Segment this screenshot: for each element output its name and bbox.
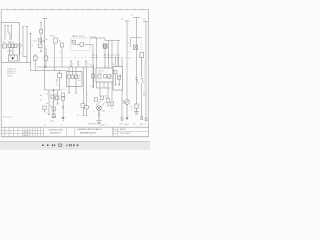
motor device xyxy=(135,104,138,112)
wire riser with device xyxy=(59,43,64,67)
chassis arrow terminator xyxy=(62,117,65,120)
svg-text:F21 04: F21 04 xyxy=(90,36,97,38)
bus N2 xyxy=(31,70,67,72)
border frame top with zone ticks xyxy=(1,10,148,138)
horizontal tie wire xyxy=(45,56,63,90)
K1 coil terminal circle xyxy=(18,44,21,47)
svg-text:8: 8 xyxy=(89,107,90,109)
wire stub pins right of J1 xyxy=(19,26,30,62)
svg-text:B14: B14 xyxy=(51,121,54,123)
fuse F2 xyxy=(44,48,48,67)
junction xyxy=(44,66,45,67)
svg-text:B 04 C 2: B 04 C 2 xyxy=(23,135,30,137)
switch pair cluster xyxy=(51,95,59,103)
svg-text:B21 04: B21 04 xyxy=(55,79,57,86)
control box internals xyxy=(98,75,111,79)
J1 pins xyxy=(4,26,13,29)
connector labels xyxy=(120,123,146,126)
svg-text:21: 21 xyxy=(128,51,130,53)
svg-text:B4: B4 xyxy=(59,41,61,43)
svg-text:B 21 04 12: B 21 04 12 xyxy=(3,117,12,119)
lamp E2 xyxy=(123,100,130,118)
svg-text:d: d xyxy=(113,134,114,136)
svg-text:B12: B12 xyxy=(140,124,143,126)
svg-text:2: 2 xyxy=(6,132,7,134)
svg-text:B12: B12 xyxy=(104,95,106,98)
switch S1 cluster xyxy=(38,39,45,52)
left small text xyxy=(3,117,12,119)
title block xyxy=(1,127,148,137)
svg-text:21-04-12B 4: 21-04-12B 4 xyxy=(120,133,130,135)
svg-text:12: 12 xyxy=(90,64,92,66)
relay box K2 xyxy=(67,72,83,87)
svg-text:LIGHTING CIRCUIT DIAG 21: LIGHTING CIRCUIT DIAG 21 xyxy=(77,128,102,131)
battery feed tap B+ xyxy=(42,18,47,56)
svg-text:B A 4 2: B A 4 2 xyxy=(8,41,15,44)
power tap right 3 xyxy=(143,22,148,119)
box internals xyxy=(114,70,121,86)
enclosure label xyxy=(72,35,86,38)
svg-text:A2: A2 xyxy=(40,94,42,97)
svg-text:E04: E04 xyxy=(125,124,128,126)
lamp symbol in unit xyxy=(134,45,138,50)
dashed link xyxy=(144,62,146,92)
svg-text:4: 4 xyxy=(108,112,109,114)
lamp E1 xyxy=(97,106,102,121)
svg-text:58: 58 xyxy=(143,19,145,21)
long tie wire right xyxy=(93,67,95,88)
svg-text:4: 4 xyxy=(10,132,11,134)
inline fuse dark xyxy=(103,44,107,48)
contact row xyxy=(92,55,120,58)
sensor pair xyxy=(62,93,65,117)
svg-text:E2: E2 xyxy=(127,43,129,45)
arrow terminator xyxy=(126,118,129,120)
svg-text:X2: X2 xyxy=(133,123,135,125)
svg-text:30: 30 xyxy=(121,19,123,21)
switch S2 xyxy=(72,41,93,47)
power tap right 2 xyxy=(133,18,140,105)
svg-text:B4: B4 xyxy=(78,80,80,82)
right distribution box xyxy=(113,67,123,91)
svg-text:12: 12 xyxy=(87,94,89,96)
svg-text:B4: B4 xyxy=(46,103,48,105)
mechanical linkage dashed line xyxy=(38,56,147,58)
ground xyxy=(134,112,139,115)
fuse block right xyxy=(140,53,144,78)
svg-text:E4: E4 xyxy=(50,105,52,107)
svg-text:4: 4 xyxy=(131,109,132,111)
bus N1 xyxy=(37,66,94,68)
aux device cluster xyxy=(81,67,88,115)
svg-text:B4: B4 xyxy=(143,95,145,97)
svg-text:B04 2: B04 2 xyxy=(101,124,107,126)
fuse F1 xyxy=(33,54,37,71)
interior lamp unit open box xyxy=(131,38,142,48)
selector box xyxy=(54,38,58,71)
feeder device on riser xyxy=(91,74,94,78)
svg-text:MACHINE 17: MACHINE 17 xyxy=(50,131,61,134)
switch bank risers xyxy=(93,38,118,88)
labels above title block xyxy=(44,115,107,127)
subtitle text xyxy=(77,128,102,134)
inline device xyxy=(43,106,46,112)
relay element chain xyxy=(52,90,56,118)
svg-text:12: 12 xyxy=(77,115,79,117)
riser tick xyxy=(104,66,106,69)
svg-text:4: 4 xyxy=(129,58,130,60)
svg-text:LIGHTING ZONE: LIGHTING ZONE xyxy=(48,129,63,131)
svg-text:MACHINE 4/04 B1: MACHINE 4/04 B1 xyxy=(80,132,96,135)
relay K1 cluster xyxy=(3,44,17,55)
K1 labels xyxy=(3,41,15,53)
bus taps xyxy=(71,65,94,67)
relay contact marks xyxy=(135,77,143,104)
wire from pin to relay cluster xyxy=(5,29,12,41)
svg-text:4 5: 4 5 xyxy=(90,86,93,88)
contactor chain xyxy=(58,71,62,91)
wire riser xyxy=(30,33,32,70)
stub wire group with labels xyxy=(70,61,87,67)
branch wires below tie xyxy=(48,90,59,115)
svg-text:B2: B2 xyxy=(56,94,58,96)
svg-text:21: 21 xyxy=(93,111,95,113)
svg-text:4: 4 xyxy=(46,113,47,115)
ground xyxy=(96,121,101,124)
revision cells text xyxy=(6,131,31,137)
box ref label xyxy=(112,64,114,66)
svg-text:21: 21 xyxy=(40,99,42,101)
svg-text:GROUND 21: GROUND 21 xyxy=(88,124,101,126)
dashed enclosure xyxy=(71,38,91,51)
svg-text:21: 21 xyxy=(44,125,46,127)
svg-text:12: 12 xyxy=(46,93,48,95)
svg-text:b: b xyxy=(113,130,114,132)
power tap right 1 xyxy=(124,21,129,100)
viewer status bar xyxy=(0,142,150,150)
right block text xyxy=(113,128,130,136)
svg-text:B2 04: B2 04 xyxy=(50,36,55,38)
svg-text:BA214: BA214 xyxy=(120,128,126,131)
terminal block with dot xyxy=(8,55,17,61)
svg-text:B04: B04 xyxy=(98,73,101,75)
svg-text:4: 4 xyxy=(61,125,62,127)
stubs into distribution box xyxy=(116,58,119,67)
svg-text:X4: X4 xyxy=(112,64,114,66)
svg-text:21: 21 xyxy=(63,89,65,91)
riser below control box xyxy=(97,82,114,109)
svg-text:A 21 B 4: A 21 B 4 xyxy=(23,131,30,134)
svg-text:PANEL SW 04: PANEL SW 04 xyxy=(72,35,86,38)
svg-text:12 K4: 12 K4 xyxy=(7,50,13,52)
status bar icons xyxy=(42,144,78,146)
K2 internals xyxy=(68,67,78,93)
svg-text:a: a xyxy=(113,128,114,130)
dashed drop xyxy=(141,38,143,53)
wire riser with inline device xyxy=(39,22,42,44)
connector module box J1 xyxy=(1,23,19,63)
svg-text:4: 4 xyxy=(145,124,146,126)
svg-text:B04: B04 xyxy=(102,110,105,112)
control box xyxy=(96,68,113,82)
note text block xyxy=(7,67,17,77)
svg-text:15: 15 xyxy=(131,15,133,17)
title text xyxy=(48,129,63,134)
svg-text:B21: B21 xyxy=(120,123,123,125)
E1 inline tick xyxy=(98,114,100,116)
wire riser xyxy=(121,57,123,66)
connector ends xyxy=(121,104,147,121)
feeder line xyxy=(90,38,120,41)
headlamp switch cluster xyxy=(94,96,105,106)
